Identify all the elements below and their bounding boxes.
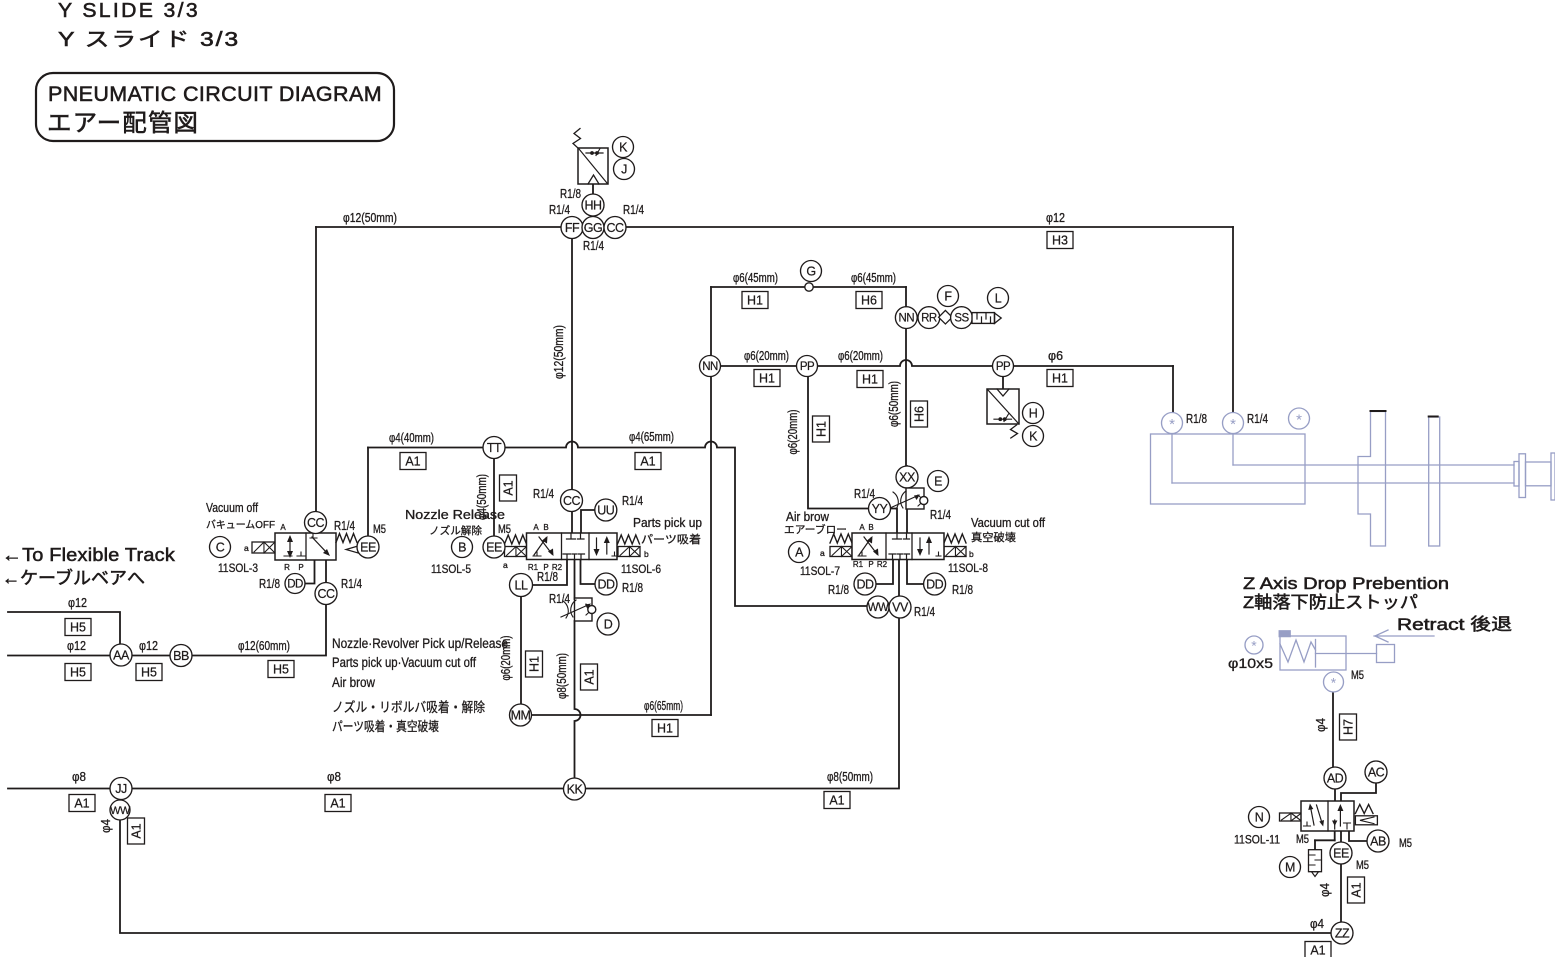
box A1 65mm [635,453,661,470]
wire valve center to flow control [574,559,576,599]
svg-text:ノズル解除: ノズル解除 [429,524,483,537]
svg-text:A1: A1 [640,455,655,469]
pressure switch K/J [573,129,608,185]
svg-text:*: * [1169,416,1175,433]
svg-text:Parts pick up·Vacuum cut off: Parts pick up·Vacuum cut off [332,655,476,670]
wire bottom phi4 long run to ZZ [120,820,1331,933]
svg-text:AD: AD [1327,772,1344,786]
svg-text:A1: A1 [405,455,420,469]
svg-text:PNEUMATIC CIRCUIT DIAGRAM: PNEUMATIC CIRCUIT DIAGRAM [48,83,382,106]
svg-text:CC: CC [317,587,335,601]
solenoid 11SOL-6 [618,547,640,557]
svg-text:PP: PP [800,361,815,373]
svg-text:K: K [619,141,628,155]
svg-text:φ4(40mm): φ4(40mm) [389,431,434,445]
svg-text:Vacuum cut off: Vacuum cut off [971,516,1045,530]
port circle 2 (blue) [1223,413,1244,434]
z port circle 2 (blue) [1324,672,1344,692]
svg-text:a: a [503,560,508,570]
junction node under G [805,283,813,291]
wire YY to valve [879,509,897,534]
solenoid 11SOL-8 [944,547,966,557]
valve 11SOL-3 body [275,533,336,560]
svg-text:R1/4: R1/4 [914,605,935,619]
wire valve to VV [898,559,900,607]
solenoid 11SOL-3 [252,542,275,553]
svg-text:バキュームOFF: バキュームOFF [206,519,275,531]
node CC valve5 [561,490,583,512]
svg-text:Y SLIDE 3/3: Y SLIDE 3/3 [58,0,200,22]
wire UU elbow [581,510,605,533]
svg-text:WW: WW [110,805,131,817]
svg-text:B: B [543,523,548,532]
svg-text:A1: A1 [1310,944,1325,957]
svg-text:H: H [1029,407,1038,421]
svg-text:D: D [604,618,613,632]
box H1 20left [754,370,780,387]
wire AC elbow to valve11 [1341,783,1376,801]
svg-text:φ6(20mm): φ6(20mm) [838,349,883,363]
wire PP down to YY [808,377,868,509]
svg-text:XX: XX [899,471,916,485]
node CC above valve3 [305,512,327,534]
node MM [510,704,532,726]
svg-text:CC: CC [563,494,581,508]
svg-text:R2: R2 [877,560,888,569]
svg-text:*: * [1331,675,1337,691]
svg-text:Parts pick up: Parts pick up [633,516,702,530]
wire DD elbow (11SOL-3) [306,560,315,584]
svg-text:b: b [644,549,649,559]
svg-text:φ12: φ12 [1046,211,1065,225]
svg-text:R1/8: R1/8 [828,583,849,597]
svg-text:11SOL-11: 11SOL-11 [1234,835,1280,847]
svg-text:UU: UU [597,504,615,518]
svg-text:P: P [298,563,303,572]
plate top marks [1371,411,1438,417]
port circle 1 (blue) [1162,413,1183,434]
svg-text:φ6(50mm): φ6(50mm) [887,381,901,427]
wire LL to valve [521,559,567,585]
node PP2 [993,356,1014,377]
svg-text:CC: CC [606,221,624,235]
svg-text:RR: RR [921,313,937,325]
actuator drawing (light blue) [1151,412,1555,547]
svg-text:DD: DD [926,578,944,592]
svg-text:ノズル・リボルバ吸着・解除: ノズル・リボルバ吸着・解除 [332,699,485,715]
svg-text:GG: GG [584,221,602,235]
node WW2 [110,800,131,820]
svg-text:M5: M5 [1399,838,1412,850]
spring 11SOL-6 [618,535,640,544]
node RR [918,307,940,329]
svg-text:PP: PP [996,361,1011,373]
node CC top [604,217,626,239]
svg-text:R1/4: R1/4 [533,487,554,501]
box H5 c [136,664,162,681]
node HH [582,194,604,216]
node DD valve3 [285,574,305,594]
wire XX flow control stubs [906,466,908,533]
svg-text:Z Axis Drop Prebention: Z Axis Drop Prebention [1243,574,1449,593]
svg-text:φ10x5: φ10x5 [1228,655,1273,671]
svg-text:φ4: φ4 [1310,917,1324,931]
svg-text:φ8: φ8 [72,770,86,784]
svg-text:R1/4: R1/4 [549,592,570,606]
svg-text:φ6: φ6 [1048,349,1063,363]
wire flow control to KK with hop [575,621,581,778]
wire valve11 to silencer [1315,831,1335,850]
node AA [110,644,132,666]
node NN silencer [895,307,917,329]
node B [452,537,473,558]
box H1 far right [1047,370,1073,387]
wire flexible track upper phi12 [8,612,120,645]
svg-text:A1: A1 [74,797,89,811]
svg-text:H5: H5 [141,666,157,680]
svg-text:R1/4: R1/4 [930,508,951,522]
svg-text:A: A [533,523,539,532]
wire main phi6(20) row with hop [711,360,1173,366]
node AD [1324,767,1346,789]
svg-text:φ6(20mm): φ6(20mm) [744,349,789,363]
svg-text:EE: EE [1333,847,1349,861]
node C [210,537,231,558]
wire bottom phi8 row up to VV [8,607,899,789]
svg-text:NN: NN [898,313,914,325]
node K (top) [613,137,634,158]
wire PP2 to pressure switch [1002,377,1004,389]
svg-text:パーツ吸着・真空破壊: パーツ吸着・真空破壊 [332,719,439,734]
wire phi6(45mm) [711,286,906,288]
node AB [1367,830,1389,852]
node K right [1023,426,1044,447]
svg-text:H7: H7 [1342,719,1356,735]
wire DD elbow (11SOL-7) [876,559,893,584]
solenoid 11SOL-7 [830,547,852,557]
port circle 3 (blue) [1289,408,1310,429]
svg-text:DD: DD [856,578,874,592]
svg-text:A: A [859,523,865,532]
flow control valve E [890,488,928,509]
svg-text:エアーブロー: エアーブロー [784,523,847,536]
box H5 d [268,661,294,678]
node NN [700,356,721,377]
svg-text:A1: A1 [583,669,597,684]
svg-text:C: C [216,541,225,555]
spring 11SOL-5 [505,535,527,544]
box A1 rotated TT [500,475,517,501]
svg-text:φ12: φ12 [67,639,86,653]
node UU [595,499,617,521]
svg-text:H5: H5 [273,663,289,677]
box A1 phi8 left [69,795,95,812]
svg-text:φ8(50mm): φ8(50mm) [555,653,569,699]
node KK [564,778,586,800]
box H1 65mm [652,720,678,737]
wire right down to actuator R1/4 [1232,227,1234,413]
svg-text:R1/8: R1/8 [1186,412,1207,426]
box A1 rotated zz [1348,877,1365,903]
svg-text:YY: YY [872,502,889,516]
svg-text:TT: TT [487,441,502,455]
node DD valve6 [595,573,617,595]
svg-text:BB: BB [173,649,189,663]
wire TT down phi4(50mm) [493,448,495,537]
flow control valve D [561,598,596,621]
svg-text:G: G [806,265,815,279]
box H6 [856,292,882,309]
svg-text:A1: A1 [502,480,516,495]
svg-text:R1/4: R1/4 [549,203,570,217]
node YY [869,498,891,520]
svg-text:R1/4: R1/4 [334,519,355,533]
svg-text:φ8(50mm): φ8(50mm) [827,770,873,784]
wire LL down to MM phi6(20mm) [520,585,522,715]
node M [1280,857,1301,878]
svg-text:φ8: φ8 [327,770,341,784]
svg-text:Vacuum off: Vacuum off [206,501,258,515]
svg-text:AA: AA [113,649,130,663]
box H1 rotated LL [526,651,543,677]
node LL [510,574,533,597]
svg-text:R1/4: R1/4 [623,203,644,217]
spring 11SOL-7 [830,534,852,543]
node JJ [110,778,132,800]
svg-text:NN: NN [702,361,718,373]
wire down to valve 11SOL-3 [315,227,317,533]
label box H3 [1047,232,1073,249]
node N [1249,807,1270,828]
svg-text:Z軸落下防止ストッパ: Z軸落下防止ストッパ [1243,593,1418,612]
svg-text:H5: H5 [70,621,86,635]
svg-text:R1/8: R1/8 [560,187,581,201]
silencer (valve11) [1309,850,1322,877]
svg-text:11SOL-5: 11SOL-5 [431,564,471,576]
valve 11SOL-7/8 body [852,533,944,560]
z port circle 1 (blue) [1245,636,1263,654]
svg-text:AC: AC [1368,766,1385,780]
wire HH to GG [592,184,594,227]
svg-text:φ12: φ12 [139,639,158,653]
wire AD to valve11 [1334,789,1336,801]
svg-text:MM: MM [511,709,531,723]
solenoid 11SOL-5 [505,547,527,557]
svg-text:真空破壊: 真空破壊 [971,530,1016,544]
svg-text:N: N [1255,811,1264,825]
node XX [896,466,918,488]
svg-text:R1/4: R1/4 [341,577,362,591]
wire valve11 to EE [1340,831,1342,843]
box A1 rotated KK [581,664,598,690]
node DD valve8 [924,573,946,595]
node VV [889,596,911,618]
node A [789,542,810,563]
svg-text:R1/8: R1/8 [952,583,973,597]
svg-text:b: b [969,549,974,559]
svg-text:φ12(60mm): φ12(60mm) [238,639,290,653]
svg-text:KK: KK [567,783,584,797]
svg-text:VV: VV [892,601,909,615]
wire phi4(40-65mm) row with hops [368,442,868,607]
node E [928,471,949,492]
node J [614,159,635,180]
svg-text:H6: H6 [861,294,877,308]
wire CC up to valve3 [325,560,327,583]
svg-text:A: A [795,546,804,560]
node FF [561,217,583,239]
svg-text:J: J [621,163,627,177]
svg-text:R1/4: R1/4 [622,494,643,508]
svg-text:H1: H1 [657,722,673,736]
svg-text:LL: LL [515,579,528,593]
svg-text:M5: M5 [498,524,511,536]
svg-text:A1: A1 [330,797,345,811]
exhaust arrow 11SOL-3 [346,546,358,553]
svg-text:R1/8: R1/8 [537,570,558,584]
svg-text:Nozzle·Revolver Pick up/Relea: Nozzle·Revolver Pick up/Release [332,636,508,651]
node PP [797,356,818,377]
svg-text:B: B [868,523,873,532]
svg-text:*: * [1296,412,1302,429]
svg-text:←To Flexible Track: ←To Flexible Track [2,545,176,565]
node D [597,613,619,635]
svg-text:R1/8: R1/8 [259,577,280,591]
silencer (top right) [972,313,1001,324]
svg-text:M5: M5 [373,524,386,536]
wire cylinder to AD phi4 [1332,691,1334,768]
wire down to EE(11SOL-3) [367,448,369,537]
box A1 40mm [400,453,426,470]
node H [1023,403,1044,424]
title box [36,73,394,141]
svg-text:FF: FF [565,221,580,235]
svg-text:R1/8: R1/8 [622,581,643,595]
wire phi6(50mm) down [905,287,907,466]
svg-text:Air brow: Air brow [332,675,375,690]
svg-text:Air brow: Air brow [786,510,830,524]
svg-text:*: * [1230,416,1236,433]
svg-text:R1: R1 [853,560,864,569]
svg-text:EE: EE [486,541,502,555]
svg-text:11SOL-7: 11SOL-7 [800,566,840,578]
svg-text:φ6(45mm): φ6(45mm) [733,271,778,285]
node AC [1365,761,1387,783]
node CC below valve3 [315,583,337,605]
wire MM to right phi6(65mm) [531,714,711,716]
svg-text:EE: EE [360,541,376,555]
wire main top phi12 [316,226,1233,228]
svg-text:R1/4: R1/4 [583,239,604,253]
svg-text:H1: H1 [815,421,829,437]
svg-text:H6: H6 [913,406,927,422]
box H6 rotated [911,401,928,427]
svg-text:M: M [1285,861,1295,875]
svg-text:CC: CC [307,516,325,530]
valve 11SOL-11 body [1301,801,1354,831]
box H5 b [65,664,91,681]
svg-text:SS: SS [954,313,969,325]
node G [801,261,822,282]
svg-text:AB: AB [1370,835,1386,849]
svg-text:DD: DD [287,579,303,591]
svg-text:Y スライド 3/3: Y スライド 3/3 [58,29,240,51]
z cylinder (light blue) [1279,631,1394,670]
box A1 phi8 50mm [824,792,850,809]
node WW [867,596,889,618]
svg-text:φ6(20mm): φ6(20mm) [786,410,800,455]
node BB [170,645,192,667]
box H5 a [65,619,91,636]
wire DD elbow (11SOL-8) [907,559,923,584]
svg-text:H1: H1 [1052,372,1068,386]
svg-text:φ12(50mm): φ12(50mm) [552,325,566,379]
node DD valve7 [854,573,876,595]
svg-text:ZZ: ZZ [1335,927,1350,941]
box A1 rotated WW [128,818,145,844]
box A1 ZZ [1305,942,1331,957]
exhaust box 11SOL-11 [1355,816,1377,825]
svg-text:P: P [868,560,873,569]
node EE valve3 [357,536,379,558]
svg-text:a: a [820,548,825,558]
svg-text:A: A [280,523,286,532]
svg-text:M5: M5 [1351,670,1364,682]
svg-text:R1/4: R1/4 [1247,412,1268,426]
box H7 rotated [1340,714,1357,740]
svg-text:11SOL-6: 11SOL-6 [621,564,661,576]
node L [988,288,1009,309]
svg-text:φ4(65mm): φ4(65mm) [629,430,674,444]
spring 11SOL-11 [1355,805,1373,814]
svg-text:A1: A1 [829,794,844,808]
svg-text:11SOL-3: 11SOL-3 [218,563,258,575]
svg-text:a: a [244,543,249,553]
svg-text:Nozzle Release: Nozzle Release [405,508,505,522]
svg-text:K: K [1029,430,1038,444]
svg-text:F: F [944,290,952,304]
svg-text:A1: A1 [130,823,144,838]
svg-text:φ4: φ4 [1314,718,1328,732]
svg-text:φ4: φ4 [1318,883,1332,897]
wire DD elbow (11SOL-5) [581,559,607,584]
node GG [582,217,604,239]
box H1 rotated PP [813,416,830,442]
node ZZ [1331,922,1353,944]
pressure switch H/K [987,389,1019,438]
svg-text:*: * [1251,638,1257,654]
svg-text:φ6(65mm): φ6(65mm) [644,699,683,713]
svg-text:M5: M5 [1356,860,1369,872]
svg-text:B: B [458,541,466,555]
check node diamond [939,310,953,324]
svg-text:HH: HH [584,199,602,213]
svg-text:パーツ吸着: パーツ吸着 [641,532,701,546]
node F [938,286,959,307]
svg-text:H1: H1 [759,372,775,386]
svg-text:φ4: φ4 [99,819,113,833]
svg-text:φ12: φ12 [68,596,87,610]
wire AB elbow [1349,831,1367,841]
svg-text:11SOL-8: 11SOL-8 [948,563,988,575]
svg-text:WW: WW [868,602,889,614]
box H1 45left [742,292,768,309]
spring 11SOL-8 [944,534,966,543]
svg-text:H5: H5 [70,666,86,680]
retract arrow (blue) [1374,630,1434,642]
svg-text:E: E [934,475,942,489]
svg-text:R1/4: R1/4 [854,487,875,501]
